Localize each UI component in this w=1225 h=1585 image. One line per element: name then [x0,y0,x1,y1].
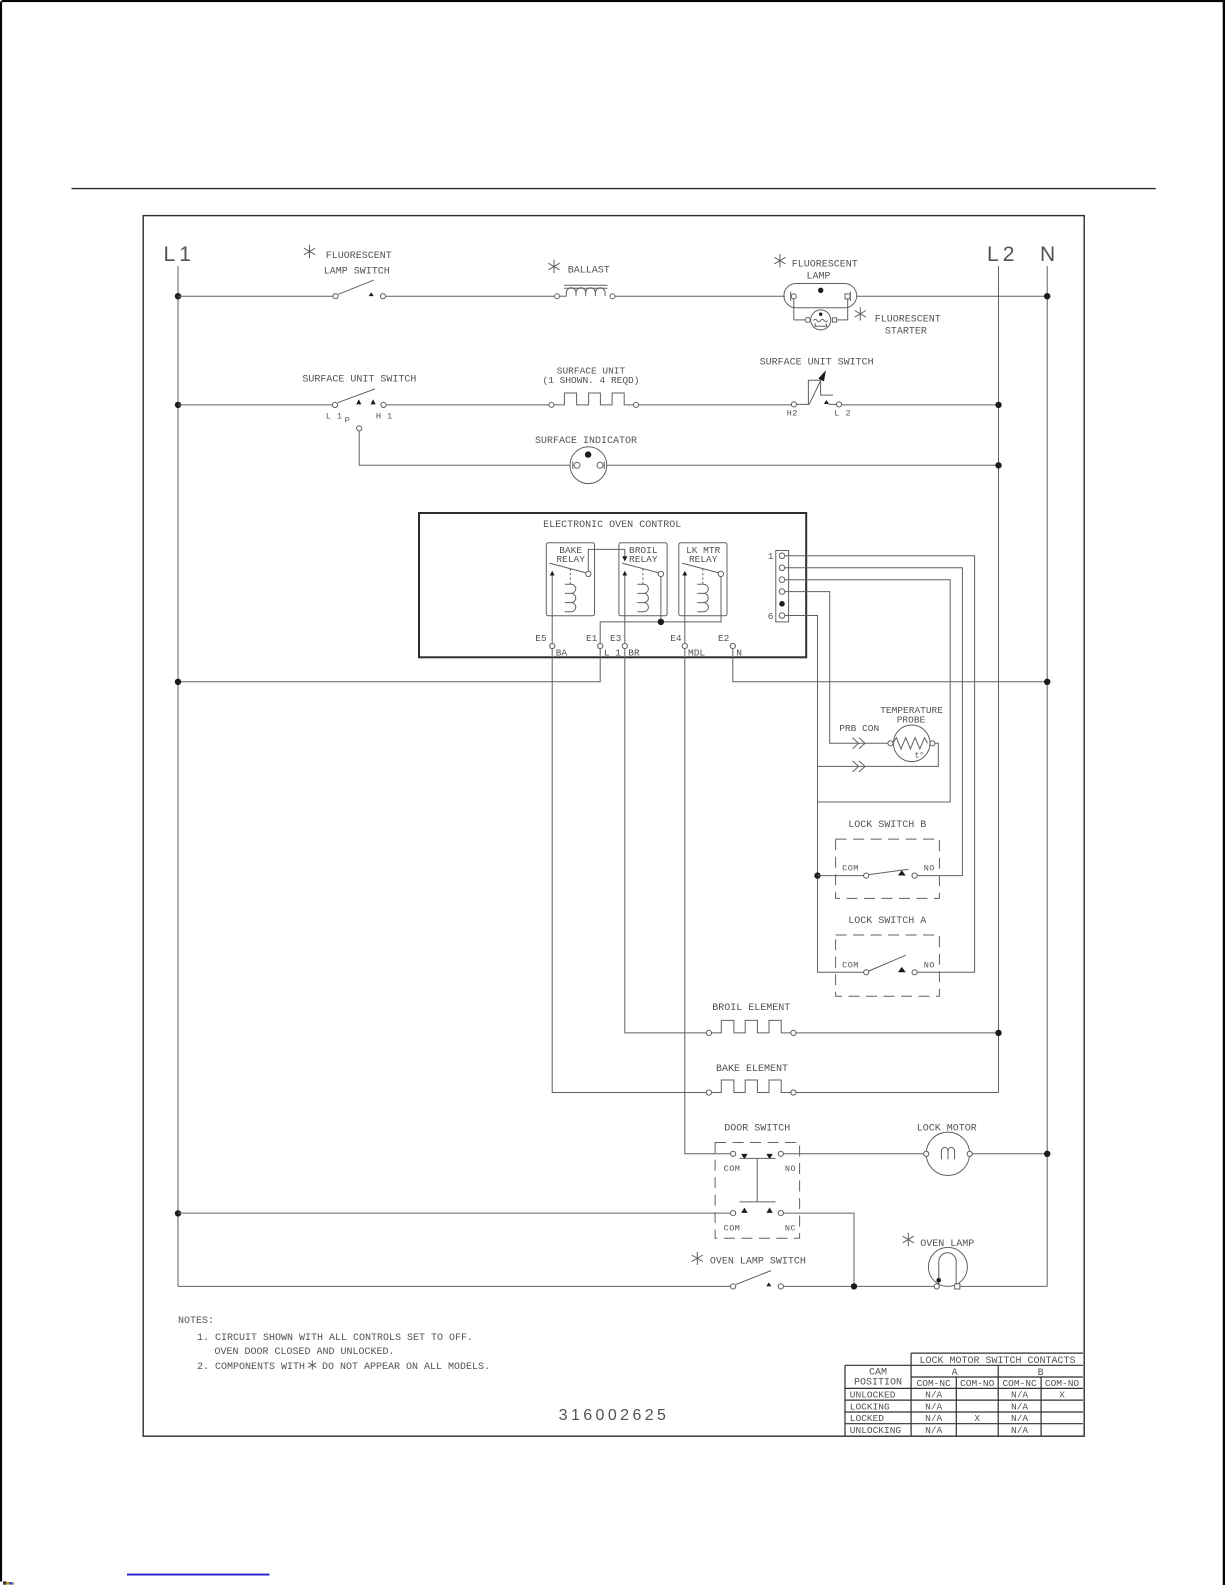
wire switch to oven lamp [783,1285,934,1287]
terminal E3 [610,576,640,659]
wire switch to surface unit element [386,404,549,406]
broil element [706,1020,796,1035]
surface unit element [549,393,639,407]
svg-text:BAKE ELEMENT: BAKE ELEMENT [716,1064,788,1075]
temperature probe RT1 [888,725,935,762]
svg-text:FLUORESCENT: FLUORESCENT [326,251,392,262]
svg-text:H2: H2 [787,409,798,419]
svg-text:2. COMPONENTS WITH: 2. COMPONENTS WITH [197,1362,305,1373]
wire E4 to door switch COM upper [685,649,731,1154]
asterisk in note 2 [308,1360,316,1369]
door switch upper contact [724,1151,797,1174]
junction dot L1 top row [175,293,181,299]
wire bake element to L2 [796,1092,999,1094]
junction dot L1 door row [175,1210,181,1216]
svg-text:N/A: N/A [1011,1390,1028,1401]
wire probe lower return [818,743,939,766]
wire element to right surface unit switch [639,404,792,406]
svg-text:X: X [974,1413,980,1424]
svg-text:COM: COM [724,1164,741,1174]
wire switch to ballast [386,295,555,297]
svg-text:t°: t° [915,752,925,761]
wire pin6 to lock switches COM [785,616,864,973]
svg-text:LOCK SWITCH B: LOCK SWITCH B [848,820,926,831]
asterisk fluorescent lamp switch [304,245,315,258]
junction dot L2 surface row [995,402,1001,408]
wire broil element to L2 [796,1032,999,1034]
wire E5 to bake element [552,649,706,1093]
svg-text:ELECTRONIC OVEN CONTROL: ELECTRONIC OVEN CONTROL [543,520,681,531]
svg-text:SURFACE UNIT SWITCH: SURFACE UNIT SWITCH [760,357,874,368]
svg-text:N/A: N/A [925,1390,942,1401]
svg-text:L 1: L 1 [326,411,343,421]
svg-text:L 1: L 1 [164,243,191,266]
svg-text:SURFACE UNIT SWITCH: SURFACE UNIT SWITCH [302,374,416,385]
junction dot oven lamp row [851,1283,857,1289]
asterisk fluorescent lamp [774,254,785,267]
relay K2 BROIL RELAY box [619,543,667,616]
svg-text:E4: E4 [670,633,682,644]
door switch linkage [740,1158,776,1202]
svg-text:E1: E1 [586,633,598,644]
svg-text:(1 SHOWN. 4 REQD): (1 SHOWN. 4 REQD) [543,375,640,386]
oven lamp [928,1247,967,1289]
wire door switch NO to lock motor [783,1153,923,1155]
wire ballast to fluorescent lamp [615,295,785,297]
svg-text:COM-NC: COM-NC [917,1378,952,1389]
svg-text:BROIL ELEMENT: BROIL ELEMENT [712,1003,790,1014]
page frame left bar [0,2,2,1582]
svg-text:PRB CON: PRB CON [839,723,879,734]
svg-text:B: B [1038,1368,1044,1379]
svg-text:COM-NO: COM-NO [1045,1378,1080,1389]
svg-text:N: N [736,648,742,659]
svg-text:LOCKED: LOCKED [850,1413,885,1424]
wire fluorescent lamp to N [857,295,1047,297]
relay K3 linkage [702,569,704,585]
lock switch A [842,955,935,975]
relay K1 coil [565,584,576,612]
junction dot broil common [658,619,664,625]
ballast L1 [555,285,616,298]
bake element [706,1080,796,1095]
svg-text:H 1: H 1 [376,411,393,421]
junction dot N top row [1044,293,1050,299]
wire L1 to surface unit switch [178,404,332,406]
relay K3 LK MTR RELAY box [679,543,727,616]
svg-text:DOOR SWITCH: DOOR SWITCH [724,1124,790,1135]
svg-text:NO: NO [924,864,935,874]
svg-text:RELAY: RELAY [556,554,585,565]
svg-text:N/A: N/A [1011,1401,1028,1412]
probe connector chevrons lower [853,761,866,772]
svg-text:LOCK MOTOR SWITCH CONTACTS: LOCK MOTOR SWITCH CONTACTS [919,1356,1075,1367]
terminal E2 [718,633,742,658]
svg-text:OVEN DOOR CLOSED AND UNLOCKED.: OVEN DOOR CLOSED AND UNLOCKED. [215,1347,395,1358]
wire pin3 to lock switch branch [785,580,950,802]
svg-text:STARTER: STARTER [885,327,927,338]
svg-text:A: A [952,1368,958,1379]
svg-text:BR: BR [628,648,640,659]
table row UNLOCKED [850,1390,1065,1401]
lock switch A dashed box [836,935,940,996]
junction dot N lock motor row [1044,1151,1050,1157]
fluorescent lamp FL1 [784,284,857,308]
svg-text:NO: NO [924,960,935,970]
svg-text:P: P [345,416,351,426]
wire switch to L2 bus [842,404,999,406]
oven lamp switch [731,1271,784,1289]
relay K3 contact arm [682,563,724,577]
svg-text:NC: NC [785,1224,796,1234]
door switch lower contact [724,1208,797,1234]
junction dot L2 broil row [995,1030,1001,1036]
svg-text:BA: BA [556,648,568,659]
wire broil common down [660,577,662,622]
svg-text:UNLOCKING: UNLOCKING [850,1425,902,1436]
svg-text:N/A: N/A [925,1401,942,1412]
asterisk ballast [548,260,559,273]
wire lock motor to N [972,1153,1047,1155]
svg-text:RELAY: RELAY [629,554,658,565]
svg-text:L 2: L 2 [987,243,1014,266]
surface indicator lamp [570,447,607,484]
connector J1 [776,551,789,622]
surface unit switch left pole [332,389,386,408]
svg-text:E5: E5 [535,633,547,644]
svg-text:OVEN LAMP SWITCH: OVEN LAMP SWITCH [710,1256,806,1267]
wire E1 to L1 bus [178,649,600,682]
relay K2 coil [637,584,648,612]
svg-text:COM: COM [842,864,859,874]
junction dot lock B COM [814,872,820,878]
wire to lock B COM [818,875,864,877]
surface unit switch right pole (infinite switch) [791,370,841,407]
junction dot L1 surface row [175,402,181,408]
terminal P pilot [357,426,362,431]
svg-text:SURFACE INDICATOR: SURFACE INDICATOR [535,436,637,447]
lock switch B dashed box [836,839,940,898]
svg-text:COM: COM [842,960,859,970]
table row LOCKING [850,1401,1029,1412]
wire oven lamp to N [960,1285,1047,1287]
svg-text:UNLOCKED: UNLOCKED [850,1390,896,1401]
svg-text:1. CIRCUIT SHOWN WITH ALL CONT: 1. CIRCUIT SHOWN WITH ALL CONTROLS SET T… [197,1333,473,1344]
wire surface indicator to L2 bus [607,464,999,466]
wire pin2 to lock switch B NO [785,568,963,876]
svg-text:OVEN LAMP: OVEN LAMP [920,1239,974,1250]
relay K3 coil [697,584,708,612]
wire common bus inside EOC [600,577,721,644]
wire E3 to broil element [625,649,707,1033]
svg-text:1: 1 [768,551,774,562]
svg-text:LAMP: LAMP [807,272,831,283]
svg-text:N/A: N/A [925,1425,942,1436]
relay K1 contact arm [550,563,592,577]
asterisk fluorescent starter [855,307,866,320]
svg-text:COM-NO: COM-NO [960,1378,995,1389]
L1 vertical bus [177,266,179,1286]
svg-text:POSITION: POSITION [854,1378,902,1389]
svg-text:N/A: N/A [1011,1425,1028,1436]
svg-text:MDL: MDL [688,648,705,659]
wire bake common to broil NC [588,549,625,571]
relay K1 BAKE RELAY box [546,543,594,616]
terminal E5 [535,576,567,659]
fluorescent lamp switch [333,280,386,299]
relay K2 contact arm [622,563,664,577]
diagram outer border [143,216,1084,1437]
electronic oven control box [419,513,806,657]
horizontal rule above diagram [72,188,1156,190]
svg-text:N: N [1040,243,1055,266]
svg-text:LOCKING: LOCKING [850,1401,890,1412]
svg-text:NO: NO [785,1164,796,1174]
svg-text:E3: E3 [610,633,622,644]
probe connector chevrons upper [853,738,866,749]
wire door switch NC down [783,1213,854,1286]
N vertical bus [1046,266,1048,1286]
svg-text:N/A: N/A [1011,1413,1028,1424]
junction dot L1 bus row [175,679,181,685]
page frame top bar [2,0,1225,2]
L2 vertical bus [998,266,1000,1093]
svg-text:LAMP SWITCH: LAMP SWITCH [324,266,390,277]
junction dot N bus row [1044,679,1050,685]
lock motor M1 [924,1132,973,1175]
svg-text:PROBE: PROBE [897,715,926,726]
terminal E1 [586,633,621,658]
svg-text:6: 6 [768,611,774,622]
relay K1 linkage [569,569,571,585]
svg-text:LOCK MOTOR: LOCK MOTOR [917,1124,977,1135]
wire L1 to door switch COM lower [178,1212,731,1214]
svg-text:316002625: 316002625 [559,1407,670,1424]
table row UNLOCKING [850,1425,1029,1436]
svg-text:DO NOT APPEAR ON ALL MODELS.: DO NOT APPEAR ON ALL MODELS. [322,1362,490,1373]
svg-text:NOTES:: NOTES: [178,1316,214,1327]
door switch dashed box [715,1143,800,1239]
wire E2 to N bus [733,649,1047,682]
lock switch B [842,864,935,879]
svg-text:LOCK SWITCH A: LOCK SWITCH A [848,916,926,927]
fluorescent starter FS1 [794,299,848,330]
svg-text:COM: COM [724,1224,741,1234]
table row LOCKED [850,1413,1029,1424]
svg-text:L 2: L 2 [834,409,851,419]
svg-text:FLUORESCENT: FLUORESCENT [792,259,858,270]
wire P to surface indicator [359,431,570,465]
svg-text:L 1: L 1 [604,648,621,659]
page frame right bar [1223,0,1225,1585]
hyperlink underline artifact [127,1574,270,1576]
wire L1 bottom to oven lamp switch [178,1285,731,1287]
svg-text:BALLAST: BALLAST [568,265,610,276]
svg-text:X: X [1059,1390,1065,1401]
svg-text:N/A: N/A [925,1413,942,1424]
junction dot L2 indicator row [995,462,1001,468]
terminal E4 [670,576,705,659]
wire pin4 to probe [785,592,888,744]
lock motor switch contacts table grid [845,1353,1083,1435]
svg-text:RELAY: RELAY [689,554,718,565]
relay K2 linkage [642,569,644,585]
wire L1 to fluorescent lamp switch [178,295,333,297]
wire pin1 to lock switch A NO [785,556,975,973]
svg-text:COM-NC: COM-NC [1002,1378,1037,1389]
asterisk oven lamp [903,1233,914,1246]
asterisk oven lamp switch [692,1252,703,1265]
svg-text:FLUORESCENT: FLUORESCENT [875,314,941,325]
svg-text:E2: E2 [718,633,730,644]
scan artifact bottom left [3,1581,14,1584]
